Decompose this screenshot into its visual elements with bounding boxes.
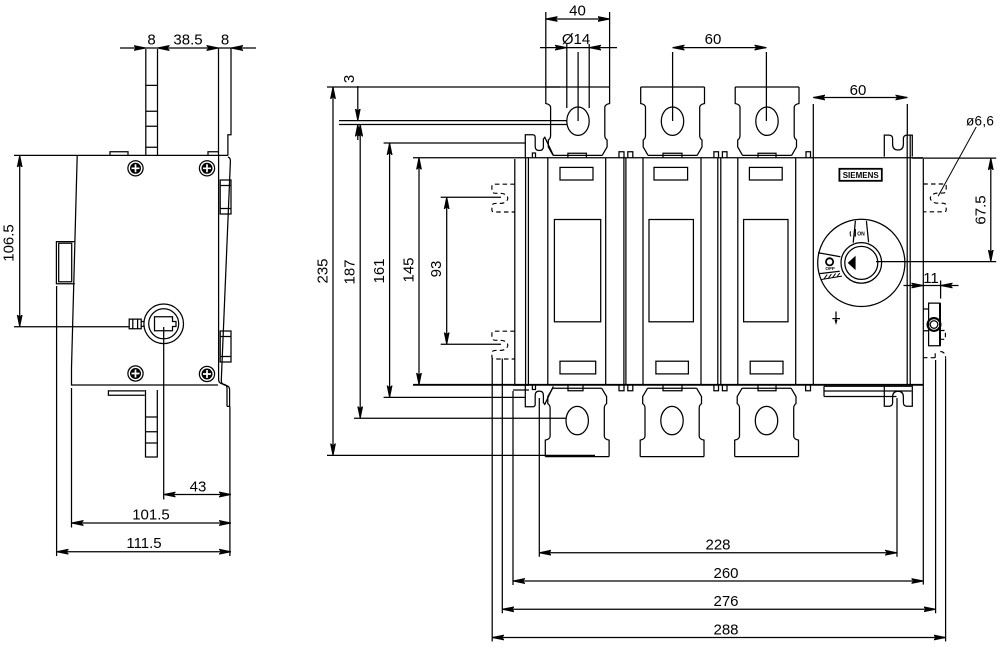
rotary handle outer circle: [818, 219, 905, 306]
handle cover left edge: [812, 158, 814, 385]
dimension 276: [502, 593, 935, 610]
svg-text:145: 145: [401, 257, 418, 282]
svg-text:ON: ON: [857, 231, 865, 237]
keyhole cutout left top (dashed slot): [492, 184, 515, 212]
DIN latch upper: [220, 180, 231, 214]
small tabs on bottom edge: [532, 385, 810, 391]
dimension 8 (top right): [219, 32, 257, 49]
svg-text:38.5: 38.5: [173, 32, 202, 49]
ON sector lines: [853, 221, 868, 243]
dimension 38.5: [158, 32, 219, 49]
handle middle ring: [841, 243, 882, 284]
small tabs on top edge: [532, 152, 810, 158]
body top edge: [413, 157, 923, 159]
pole module 1: [548, 158, 606, 385]
svg-text:111.5: 111.5: [126, 535, 161, 552]
DIN latch lower: [220, 331, 231, 362]
dimension 40 (lug width): [546, 3, 610, 88]
keyhole cutout left bottom (dashed slot): [492, 331, 515, 359]
svg-text:235: 235: [315, 258, 332, 283]
OFF hatched wedge: [821, 273, 842, 280]
dimension 106.5: [1, 155, 130, 326]
shaft circle: [144, 304, 184, 344]
extension line clip notch left (228): [538, 398, 540, 557]
svg-text:8: 8: [147, 32, 155, 49]
body outline: [72, 155, 228, 385]
dimension 3 (busbar thickness): [341, 75, 358, 140]
SIEMENS nameplate: [839, 169, 881, 181]
right mounting leg lines: [936, 359, 946, 642]
body right edge double line: [907, 135, 910, 385]
dimension 60 (handle section, right): [813, 82, 907, 158]
svg-text:93: 93: [428, 261, 445, 278]
svg-text:228: 228: [705, 537, 730, 554]
screw top-right: [199, 161, 214, 176]
top-right DIN clip: [884, 135, 912, 157]
handle inner ring: [845, 246, 878, 279]
OFF sector lines: [818, 253, 840, 274]
dimension 43: [164, 327, 231, 500]
dimension 228: [539, 537, 897, 554]
dimension 11: [904, 270, 959, 299]
svg-text:67.5: 67.5: [972, 195, 989, 224]
OFF symbol O: [826, 258, 833, 265]
svg-text:288: 288: [713, 621, 738, 638]
leader ø6,6: [938, 114, 994, 197]
rail plate inner edge: [219, 155, 227, 406]
svg-text:8: 8: [221, 32, 229, 49]
phase barrier 1 (double line): [624, 158, 626, 385]
rail plate outer slanted edge: [221, 157, 230, 406]
bottom lug 1: [545, 388, 609, 456]
dimension 260: [513, 565, 923, 582]
top lug 2: [641, 87, 705, 155]
right accessory bracket: [923, 303, 945, 346]
body bottom edge: [413, 384, 923, 386]
dimension 8 (top left): [120, 32, 158, 49]
rear rail flange top profile: [228, 48, 231, 156]
shaft nut: [129, 319, 144, 329]
keyhole cutout right (dashed slot, ø6,6): [923, 184, 946, 212]
ON tick and label: [850, 229, 865, 237]
svg-text:11: 11: [923, 270, 939, 287]
dimension 67.5: [876, 158, 996, 262]
hidden mounting plate left edge (dashed): [514, 159, 516, 385]
bottom lug 3: [735, 388, 799, 456]
screw top-left: [128, 161, 143, 176]
svg-text:276: 276: [713, 593, 738, 610]
top edge bump left: [110, 152, 128, 156]
dimension 235 (overall height): [315, 87, 596, 455]
rear mounting plate vertical line: [218, 48, 220, 155]
busbar side lines (3mm): [339, 121, 567, 125]
svg-text:101.5: 101.5: [132, 507, 170, 524]
svg-text:40: 40: [569, 3, 586, 20]
screw bottom-right: [199, 366, 214, 381]
body left edge double line: [526, 158, 529, 385]
bottom mounting plate step: [108, 391, 144, 395]
extension line clip notch right (228): [896, 398, 898, 557]
right accessory leg (below bracket): [923, 351, 945, 358]
dimension Ø14 (lug hole): [540, 31, 617, 121]
dimension 288: [492, 621, 945, 638]
handle shaft pointer triangle: [848, 256, 856, 270]
pole module 2: [643, 158, 701, 385]
top busbar terminal: [146, 49, 158, 155]
pole module 3: [738, 158, 796, 385]
svg-text:Ø14: Ø14: [562, 31, 590, 48]
bottom left cover plate: [513, 385, 529, 390]
bottom right cover plate: [824, 386, 912, 396]
dimension 60 (pole pitch, top): [673, 31, 767, 121]
rail extension line to bottom dims: [229, 406, 231, 556]
phase barrier 2 (double line): [718, 158, 721, 385]
dimension 187: [342, 125, 566, 419]
side handle bump (left protrusion): [56, 242, 74, 284]
left mounting leg lines: [492, 359, 502, 642]
top lug 1: [546, 87, 610, 155]
extension line plate left (260): [512, 391, 514, 585]
svg-text:OFF: OFF: [825, 266, 835, 272]
extension line plate right (260): [922, 159, 924, 585]
top edge bump right: [208, 152, 219, 156]
svg-text:161: 161: [371, 258, 388, 283]
dimension 101.5: [72, 388, 232, 528]
svg-text:60: 60: [850, 82, 867, 99]
svg-text:106.5: 106.5: [1, 224, 18, 262]
bottom-right DIN clip: [884, 385, 912, 406]
svg-text:187: 187: [342, 259, 359, 284]
svg-text:60: 60: [705, 31, 722, 48]
dimension 145 (body height): [401, 158, 420, 385]
top lug 3: [735, 87, 799, 155]
bottom-left DIN clip: [525, 385, 553, 407]
svg-text:43: 43: [190, 478, 207, 495]
screw bottom-left: [128, 366, 143, 381]
svg-text:SIEMENS: SIEMENS: [843, 170, 879, 180]
svg-text:260: 260: [713, 565, 738, 582]
dimension 93 (slot pitch): [428, 197, 501, 344]
bottom lug 2: [640, 388, 704, 456]
bottom busbar terminal: [146, 390, 158, 457]
handle position mark below: [832, 312, 840, 323]
dimension 111.5: [57, 286, 231, 556]
svg-text:3: 3: [341, 75, 358, 83]
top-left DIN clip: [525, 135, 553, 158]
dimension 161: [371, 143, 525, 397]
svg-text:ø6,6: ø6,6: [966, 114, 994, 129]
